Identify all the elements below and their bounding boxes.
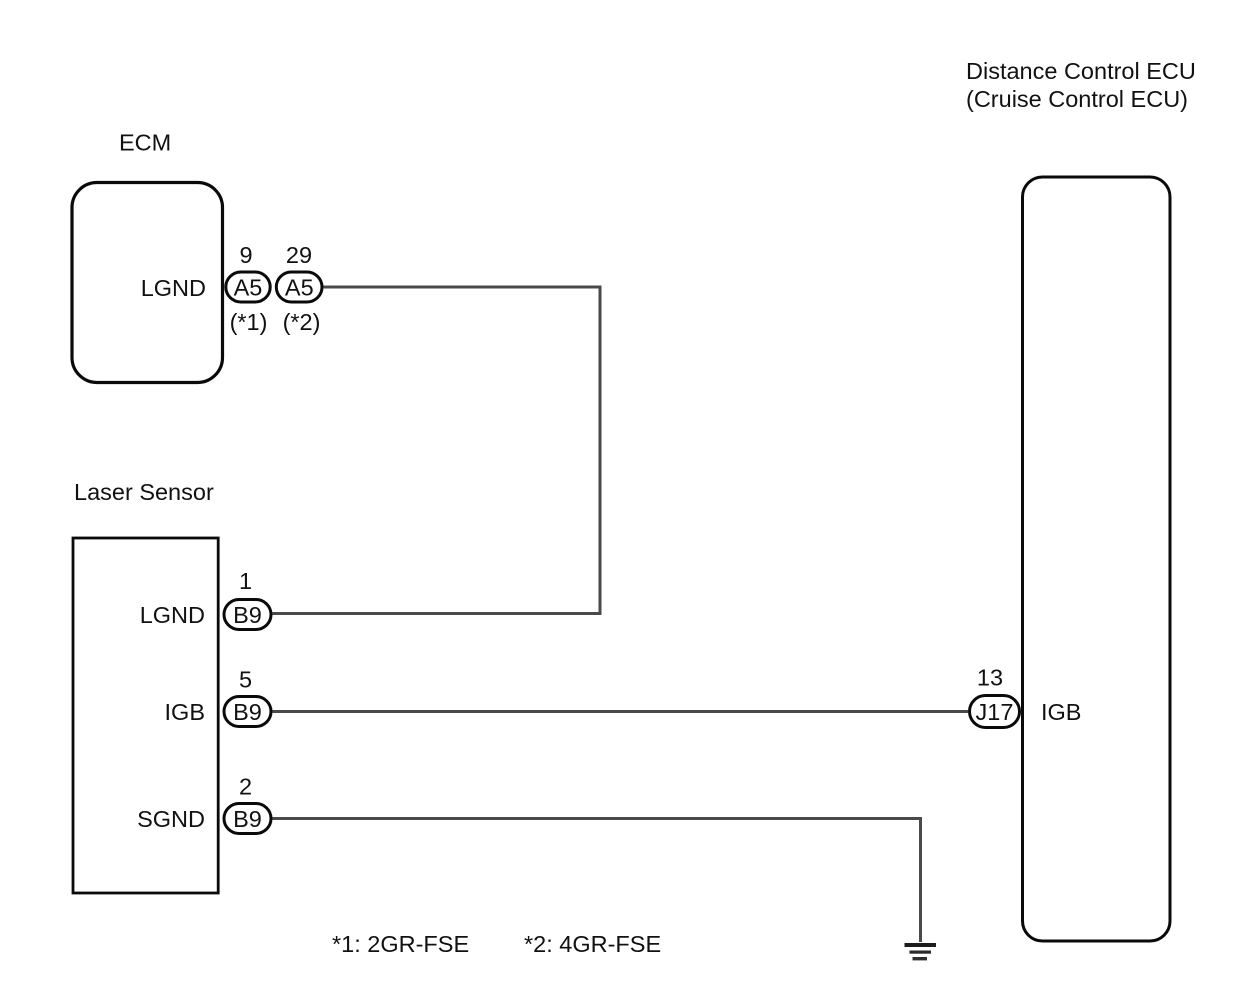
svg-text:J17: J17 bbox=[976, 699, 1014, 725]
svg-text:IGB: IGB bbox=[165, 699, 205, 725]
svg-text:A5: A5 bbox=[234, 275, 263, 301]
svg-text:(*2): (*2) bbox=[283, 309, 321, 335]
svg-text:B9: B9 bbox=[233, 806, 262, 832]
svg-text:LGND: LGND bbox=[140, 602, 205, 628]
svg-text:LGND: LGND bbox=[141, 275, 206, 301]
svg-text:5: 5 bbox=[239, 667, 252, 693]
svg-text:Laser Sensor: Laser Sensor bbox=[74, 479, 214, 505]
svg-text:*1: 2GR-FSE: *1: 2GR-FSE bbox=[332, 931, 469, 957]
svg-text:ECM: ECM bbox=[119, 130, 171, 156]
svg-text:SGND: SGND bbox=[137, 806, 205, 832]
svg-text:B9: B9 bbox=[233, 699, 262, 725]
svg-text:*2: 4GR-FSE: *2: 4GR-FSE bbox=[524, 931, 661, 957]
svg-text:(Cruise Control ECU): (Cruise Control ECU) bbox=[966, 86, 1188, 112]
svg-text:(*1): (*1) bbox=[230, 309, 268, 335]
svg-text:A5: A5 bbox=[285, 275, 314, 301]
svg-text:1: 1 bbox=[239, 568, 252, 594]
svg-text:B9: B9 bbox=[233, 602, 262, 628]
svg-text:2: 2 bbox=[239, 774, 252, 800]
svg-text:IGB: IGB bbox=[1041, 699, 1081, 725]
svg-text:9: 9 bbox=[239, 242, 252, 268]
svg-text:29: 29 bbox=[286, 242, 312, 268]
svg-text:13: 13 bbox=[977, 665, 1003, 691]
svg-text:Distance Control ECU: Distance Control ECU bbox=[966, 58, 1196, 84]
